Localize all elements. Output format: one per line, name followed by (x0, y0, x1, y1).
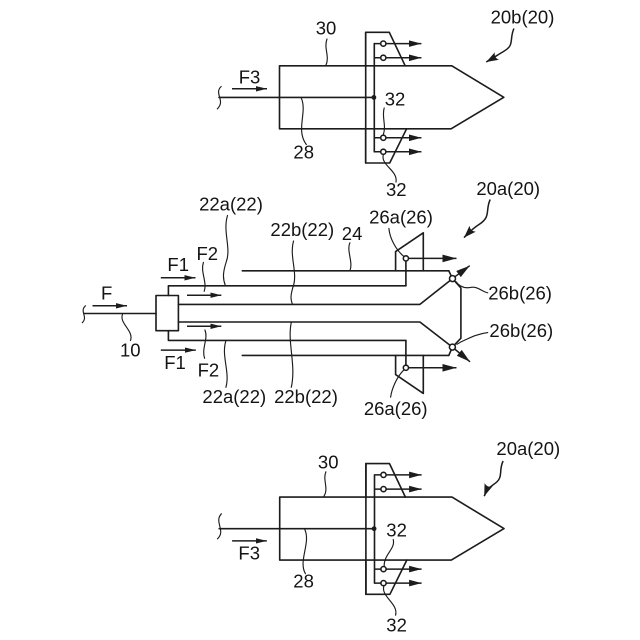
break squiggle at centerline start (82, 306, 85, 323)
inner vertical through nozzles 32 (374, 475, 376, 583)
exit rim top chamfer (449, 271, 453, 279)
fin 26a bottom (396, 355, 424, 393)
leader 24 (349, 243, 351, 271)
leader 30 (326, 39, 327, 65)
nozzle circle 32 row 1 (381, 41, 386, 46)
leader 30 (fig C) (324, 472, 326, 497)
pivot circle 26b bottom (449, 344, 455, 350)
jet arrow row 3 (375, 568, 422, 570)
fin plate left vertical (365, 464, 367, 595)
fin 30 top trapezoid (366, 464, 406, 498)
jet arrow row 3 (374, 137, 421, 139)
jet arrow row 4 (374, 151, 421, 153)
fin jet arrow bottom (406, 367, 457, 369)
svg-text:22a(22): 22a(22) (199, 193, 263, 214)
svg-text:24: 24 (342, 223, 363, 244)
fin 30 top trapezoid (366, 32, 406, 66)
leader 32 lower (fig C) (383, 586, 395, 615)
exit jet arrow bottom diagonal (454, 348, 471, 362)
nozzle circle 32 row 4 (381, 581, 386, 586)
duct outer wall bottom (242, 354, 448, 356)
nozzle circle 32 row 1 (381, 472, 386, 477)
svg-text:26a(26): 26a(26) (364, 398, 428, 419)
nozzle circle 32 row 3 (381, 135, 386, 140)
duct wall 22a bottom (168, 331, 406, 341)
nozzle circle 32 row 4 (381, 149, 386, 154)
fin circle 26a top (403, 256, 408, 261)
svg-text:F3: F3 (238, 543, 260, 564)
wire centerline 28 (219, 528, 374, 530)
nozzle circle 32 row 2 (381, 487, 386, 492)
svg-text:26a(26): 26a(26) (369, 207, 433, 228)
vertical through fin circle bottom (405, 340, 407, 367)
leader 26b lower (457, 333, 488, 345)
break squiggle at centerline start (217, 87, 221, 109)
wire centerline 28 (219, 96, 374, 98)
pointer arrow 20b (486, 29, 514, 63)
leader 22a top (223, 216, 227, 286)
node dot at centerline end (372, 95, 377, 100)
svg-text:26b(26): 26b(26) (488, 283, 552, 304)
pointer arrow 20a (fig C) (484, 461, 503, 496)
jet arrow row 2 (375, 488, 422, 490)
svg-text:32: 32 (386, 615, 407, 636)
svg-text:F2: F2 (198, 359, 220, 380)
leader 10 (122, 314, 131, 340)
fin 26a top (396, 233, 424, 271)
svg-text:22a(22): 22a(22) (202, 386, 266, 407)
leader 22a bottom (224, 341, 227, 388)
leader 28 (301, 98, 306, 144)
leader F2 bottom (204, 330, 206, 358)
svg-text:10: 10 (120, 340, 141, 361)
inner vertical through nozzles 32 (373, 44, 375, 152)
tube wall 22b top with nozzle flare (178, 279, 452, 305)
F3 flow arrow (232, 540, 267, 542)
break squiggle at centerline start (218, 514, 222, 539)
jet arrow row 2 (374, 57, 421, 59)
svg-text:20a(20): 20a(20) (496, 438, 560, 459)
leader 22b bottom (290, 322, 293, 387)
svg-text:30: 30 (318, 452, 339, 473)
body 10 box (156, 296, 178, 331)
jet arrow row 1 (374, 43, 421, 45)
fin circle 26a bottom (403, 365, 408, 370)
svg-text:30: 30 (316, 18, 337, 39)
svg-text:28: 28 (293, 571, 314, 592)
leader 26b upper (456, 282, 488, 293)
svg-text:32: 32 (385, 89, 406, 110)
vertical through fin circle top (405, 258, 407, 285)
leader 26a top (389, 228, 404, 256)
fin plate left vertical (365, 32, 367, 163)
leader 32 upper (383, 108, 384, 134)
svg-text:20b(20): 20b(20) (491, 7, 555, 28)
svg-text:22b(22): 22b(22) (274, 386, 338, 407)
leader 26a bottom (391, 370, 404, 397)
leader 22b top (291, 241, 295, 304)
leader F2 top (203, 262, 205, 291)
exit jet arrow top diagonal (454, 266, 470, 278)
F2 flow arrow top (187, 294, 221, 296)
svg-text:F2: F2 (197, 243, 219, 264)
node dot at centerline end (372, 526, 377, 531)
duct wall 22a top (168, 286, 406, 296)
body 20a outline (280, 497, 504, 560)
leader 32 lower (383, 155, 396, 182)
leader 32 upper (fig C) (384, 540, 393, 566)
wire centerline into box (84, 313, 156, 315)
jet arrow row 4 (375, 582, 422, 584)
tube wall 22b bottom with nozzle flare (178, 322, 452, 347)
pointer arrow 20a (464, 200, 490, 238)
F2 flow arrow bottom (187, 325, 221, 327)
jet arrow row 1 (375, 474, 422, 476)
fin jet arrow top (406, 257, 457, 259)
pivot circle 26b top (450, 276, 456, 282)
F flow arrow (93, 305, 128, 307)
duct outer wall 24 top (242, 270, 448, 272)
exit rim bottom chamfer (449, 347, 453, 355)
svg-text:26b(26): 26b(26) (489, 320, 553, 341)
nozzle circle 32 row 2 (381, 55, 386, 60)
body 20b outline (280, 66, 504, 129)
fin 30 bottom trapezoid (366, 129, 407, 163)
fin 30 bottom trapezoid (366, 560, 407, 594)
F1 flow arrow bottom (161, 349, 196, 351)
F3 flow arrow (232, 88, 267, 90)
nozzle circle 32 row 3 (381, 567, 386, 572)
svg-text:F1: F1 (167, 254, 189, 275)
svg-text:28: 28 (293, 142, 314, 163)
leader 28 (fig C) (303, 530, 306, 574)
svg-text:22b(22): 22b(22) (270, 219, 334, 240)
svg-text:F1: F1 (164, 352, 186, 373)
svg-text:F3: F3 (239, 66, 261, 87)
F1 flow arrow top (161, 277, 196, 279)
exit rim edge (452, 279, 461, 348)
svg-text:32: 32 (386, 520, 407, 541)
svg-text:20a(20): 20a(20) (476, 178, 540, 199)
svg-text:F: F (101, 283, 112, 304)
